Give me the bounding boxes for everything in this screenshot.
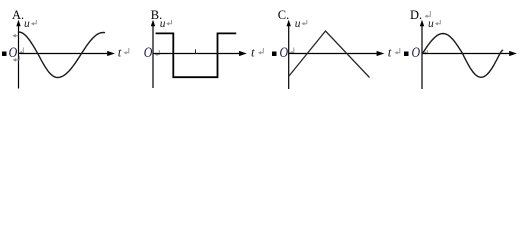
- return mark after O (B): [157, 50, 160, 55]
- gray left arrow mark (A): [15, 35, 19, 37]
- t-axis A: [19, 53, 109, 55]
- half-period tick B: [195, 49, 197, 53]
- return mark below O (A): [16, 56, 20, 60]
- u-axis D: [421, 24, 423, 89]
- svg-text:u: u: [24, 18, 30, 30]
- svg-text:C.: C.: [278, 8, 289, 22]
- svg-text:O: O: [9, 45, 18, 61]
- return mark after O (A): [21, 48, 23, 53]
- black square bullet D: [404, 52, 409, 57]
- svg-text:u: u: [428, 18, 434, 30]
- svg-text:O: O: [412, 45, 421, 61]
- t-axis B: [153, 53, 240, 55]
- t-axis C: [289, 53, 378, 55]
- return mark after u (B): [168, 20, 171, 24]
- return mark after t (C): [397, 48, 400, 53]
- return mark after u (D): [437, 20, 440, 24]
- return mark after u (C): [304, 20, 307, 24]
- svg-text:u: u: [160, 18, 166, 30]
- black square bullet C: [272, 52, 277, 57]
- u-axis B: [152, 24, 154, 88]
- svg-text:A.: A.: [12, 8, 24, 22]
- u-axis A: [18, 24, 20, 89]
- svg-text:t: t: [118, 44, 122, 59]
- return mark after D label: [427, 11, 431, 16]
- svg-text:O: O: [144, 45, 153, 61]
- black square bullet A: [2, 52, 7, 57]
- return mark after t (B): [260, 48, 263, 53]
- t-axis D: [422, 53, 510, 55]
- return mark after O (C): [292, 48, 294, 53]
- return mark after u (A): [33, 20, 36, 24]
- sine wave A (starts at maximum): [19, 32, 105, 78]
- sine wave D (starts rising from origin): [423, 34, 503, 78]
- svg-text:D.: D.: [410, 8, 422, 22]
- svg-text:t: t: [251, 44, 255, 59]
- svg-text:t: t: [388, 44, 392, 59]
- u-axis C: [288, 24, 290, 89]
- triangle wave C: [289, 31, 370, 78]
- square wave B: [156, 33, 237, 77]
- svg-text:u: u: [295, 18, 301, 30]
- return mark after t (A): [126, 48, 129, 53]
- svg-text:O: O: [280, 45, 289, 61]
- return mark after O (D): [425, 50, 428, 53]
